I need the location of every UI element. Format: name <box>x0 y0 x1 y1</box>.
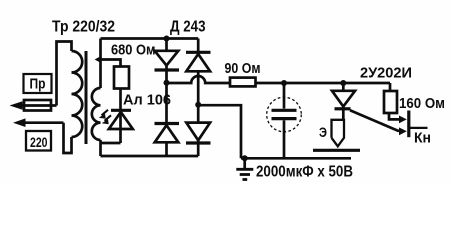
wire resistor to LED <box>119 89 122 144</box>
svg-text:Ал 106: Ал 106 <box>123 93 171 109</box>
button actuator stub <box>410 127 428 129</box>
wire D4 to bottom rail <box>197 140 200 156</box>
svg-text:160 Ом: 160 Ом <box>399 96 445 112</box>
node ground junction <box>242 155 248 161</box>
LED Ал106 triangle <box>109 112 133 129</box>
wire secondary top lead up to top rail <box>99 39 102 89</box>
top rail <box>101 37 199 40</box>
thyristor triangle <box>332 91 355 107</box>
wire top rail to diode D1 <box>165 39 168 71</box>
diode D2 top-right cathode bar <box>186 51 211 54</box>
LED Ал106 cathode bar <box>111 109 131 112</box>
capacitor dashed circle <box>267 97 302 132</box>
wire LED bottom to secondary bottom <box>101 140 121 156</box>
svg-text:Тр 220/32: Тр 220/32 <box>52 19 115 36</box>
wire fuse to primary top <box>57 42 72 106</box>
220V input bottom arrow <box>18 121 64 124</box>
diode D2 triangle (pointing up) <box>186 54 210 71</box>
ground symbol <box>243 158 246 168</box>
svg-text:2000мкФ х 50В: 2000мкФ х 50В <box>256 164 353 181</box>
svg-text:Пр: Пр <box>30 76 46 93</box>
svg-text:Э: Э <box>319 124 327 140</box>
wire to capacitor <box>283 83 286 109</box>
LED emission arrows <box>102 110 112 121</box>
wire branch to 680 resistor <box>101 60 121 67</box>
svg-text:Кн: Кн <box>414 131 431 147</box>
bottom AC rail <box>101 155 199 158</box>
diode D4 cathode bar <box>186 141 211 144</box>
node DC minus (right column) <box>195 102 201 108</box>
resistor 160 Ом <box>384 91 397 113</box>
fuse Пр rectangle <box>24 100 51 111</box>
transformer core <box>85 51 88 144</box>
wire thyristor VS1 anode to electrode <box>342 83 345 120</box>
transformer secondary winding <box>92 88 101 140</box>
wire 160 Ом to button upper contact <box>389 113 401 119</box>
capacitor C1 plates <box>272 109 297 112</box>
diode D3 triangle (pointing up) <box>155 125 179 142</box>
node top rail / left column <box>164 36 170 42</box>
wire DC minus from right column to ground rail <box>198 105 241 158</box>
svg-text:Д 243: Д 243 <box>170 19 206 36</box>
button Кн bar <box>407 111 410 138</box>
diode D3 bottom-left cathode bar <box>155 122 180 125</box>
svg-text:90 Ом: 90 Ом <box>225 61 261 77</box>
wire ground rail <box>241 157 351 160</box>
wire DC plus with hop over right column <box>167 76 231 83</box>
node DC plus (left column) <box>164 80 170 86</box>
wire right bridge column <box>197 39 200 141</box>
diode D1 cathode bar <box>155 68 180 71</box>
diode D4 bottom-right triangle (pointing down) <box>186 123 210 141</box>
fuse arrow line (220V input top) <box>14 104 57 107</box>
svg-text:220: 220 <box>30 134 48 150</box>
wire 90 Ом to 160 Ом corner <box>256 82 391 85</box>
workpiece plate <box>313 149 360 152</box>
transformer T1 primary winding <box>72 51 83 137</box>
arrowhead left bottom <box>13 118 26 127</box>
thyristor cathode bar <box>335 107 351 110</box>
node tap junction with small left wedge <box>95 56 102 63</box>
svg-text:680 Ом: 680 Ом <box>111 42 156 59</box>
wire 220 arrow to primary bottom <box>64 123 72 153</box>
resistor 680 Ом <box>114 67 129 89</box>
button upper contact arrow <box>399 116 407 124</box>
diode D1 triangle (pointing down) <box>155 51 179 66</box>
wire left bridge column <box>165 70 168 156</box>
label box Пр <box>24 74 52 93</box>
svg-text:2У202И: 2У202И <box>360 66 412 82</box>
wire capacitor bottom <box>283 120 286 158</box>
arrowhead left top <box>10 101 23 110</box>
wire to 160 Ом <box>389 83 392 91</box>
electrode holder <box>332 120 345 147</box>
button lower contact arrow <box>399 127 407 135</box>
node capacitor top <box>281 80 287 86</box>
resistor 90 Ом <box>230 78 256 87</box>
node thyristor anode <box>340 80 346 86</box>
label box 220 <box>26 131 51 151</box>
thyristor gate lead <box>350 110 401 131</box>
